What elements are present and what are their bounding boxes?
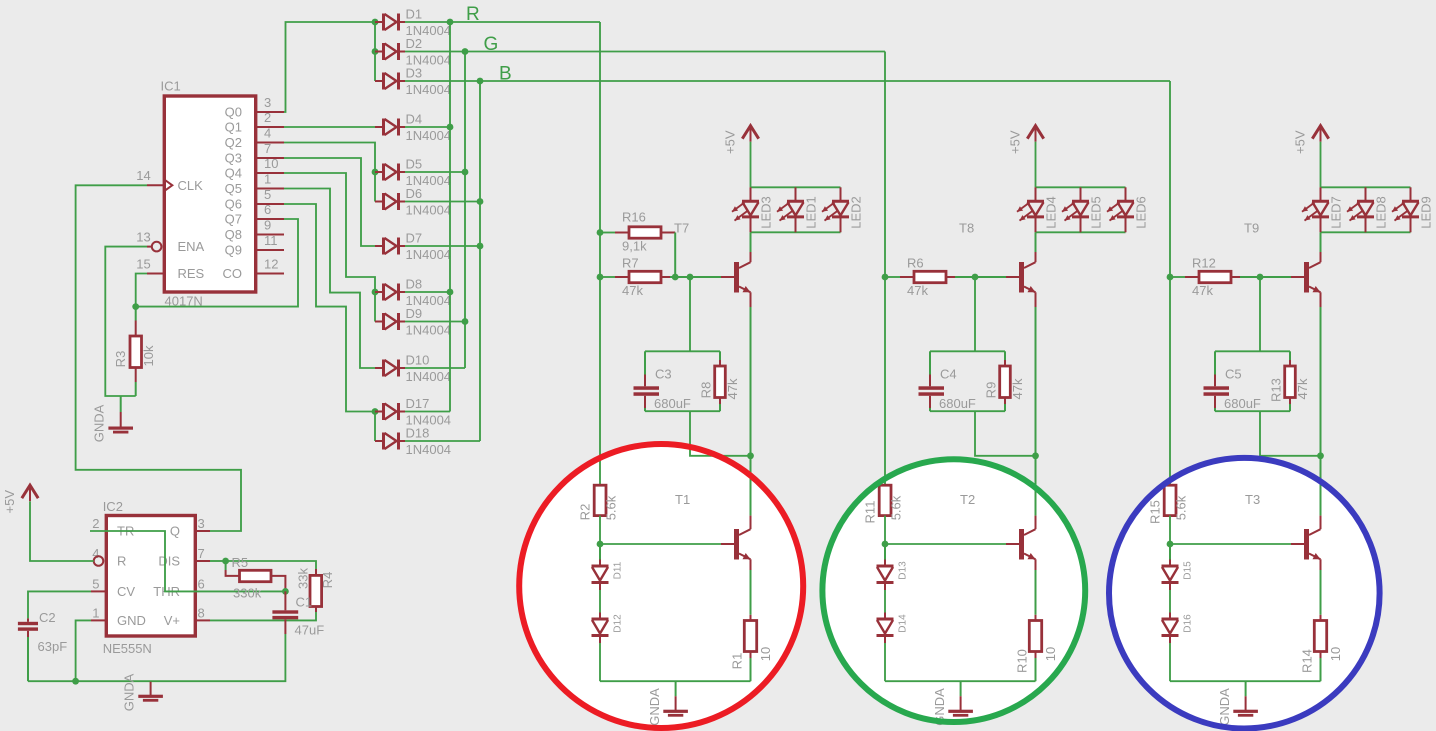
junction dot R7 tap — [597, 274, 604, 281]
wire R16 left — [600, 232, 629, 234]
resistor R15 body — [1164, 485, 1176, 515]
junction dot ground rail — [72, 678, 79, 685]
wire R2 bottom to base node — [599, 516, 601, 544]
R8 reference label — [698, 382, 713, 399]
wire Q6 pin5 to D17-D18 anodes — [284, 204, 375, 441]
svg-text:IC2: IC2 — [103, 499, 123, 514]
net label B — [499, 64, 512, 85]
GNDA label under IC2 — [122, 673, 137, 711]
IC1 pin name Q7 — [225, 212, 242, 227]
wire LED top rail — [1321, 186, 1411, 188]
svg-text:LED4: LED4 — [1043, 196, 1058, 229]
svg-text:10: 10 — [758, 647, 773, 661]
svg-text:R13: R13 — [1268, 378, 1283, 402]
svg-text:D8: D8 — [406, 277, 423, 292]
svg-text:6: 6 — [264, 202, 271, 217]
svg-text:R7: R7 — [622, 256, 639, 271]
capacitor C3 680uF — [634, 351, 660, 411]
wire net G vertical to stage — [884, 52, 886, 486]
IC1 pin 11 (Q9) stub — [256, 249, 284, 251]
IC1 pin name CO — [223, 266, 243, 281]
IC1 pin 1 (Q5) stub — [256, 188, 284, 190]
IC1 pin 12 (CO) stub — [256, 273, 284, 275]
IC2 reference label — [103, 499, 123, 514]
IC2 pin 3 Q stub — [195, 530, 210, 532]
svg-text:1: 1 — [264, 172, 271, 187]
wire +5V to R pin4 — [30, 501, 94, 561]
svg-text:T3: T3 — [1245, 492, 1260, 507]
supply +5V stage B — [1292, 126, 1328, 154]
IC1 pin 15 (RES) stub — [147, 273, 164, 275]
IC IC1 4017N body — [164, 96, 255, 292]
svg-text:CLK: CLK — [178, 178, 204, 193]
svg-text:3: 3 — [198, 516, 205, 531]
wire base node to C3 box — [689, 277, 691, 351]
svg-text:13: 13 — [136, 230, 150, 245]
resistor R8 body — [715, 351, 726, 411]
svg-text:C3: C3 — [655, 367, 672, 382]
wire LED top rail — [1036, 186, 1126, 188]
junction dot R bus D8 — [447, 289, 454, 296]
svg-text:R3: R3 — [113, 351, 128, 368]
wire Q4 pin10 to D8-D9 anodes — [284, 173, 375, 322]
R9 reference label — [983, 382, 998, 399]
net label R — [466, 4, 480, 25]
wire C5 box exit — [1260, 411, 1321, 456]
svg-text:Q8: Q8 — [225, 227, 242, 242]
R8 value label 47k — [725, 378, 740, 399]
wire net B horizontal rail — [480, 80, 1170, 82]
ground GNDA stage B — [1233, 681, 1258, 717]
wire T7 emitter down — [750, 292, 752, 456]
wire stage ground rail — [885, 680, 1036, 682]
IC1 pin name Q0 — [225, 105, 242, 120]
svg-text:C2: C2 — [39, 610, 56, 625]
wire D13 to D14 — [884, 590, 886, 613]
svg-text:47k: 47k — [1010, 378, 1025, 399]
wire C3 box bottom — [645, 410, 720, 412]
svg-text:D1: D1 — [406, 7, 423, 22]
R2 reference label — [578, 504, 593, 521]
svg-text:R4: R4 — [320, 572, 335, 589]
svg-text:Q1: Q1 — [225, 120, 242, 135]
resistor R5 body — [240, 570, 272, 581]
IC1 pin name ENA — [178, 239, 205, 254]
wire T9 emitter down — [1320, 292, 1322, 456]
net label G — [484, 34, 499, 55]
diode D14 — [877, 613, 909, 644]
svg-text:D5: D5 — [406, 157, 423, 172]
junction dot B bus D6 — [477, 198, 484, 205]
R5 reference label — [232, 555, 249, 570]
IC2 pin number 2 — [92, 516, 99, 531]
svg-text:47k: 47k — [725, 378, 740, 399]
IC1 pin name Q5 — [225, 181, 242, 196]
C4 value label 680uF — [939, 396, 976, 411]
resistor R13 body — [1285, 351, 1296, 411]
svg-text:Q9: Q9 — [225, 243, 242, 258]
svg-text:C4: C4 — [940, 367, 957, 382]
svg-text:R5: R5 — [232, 555, 249, 570]
svg-text:D12: D12 — [613, 614, 624, 633]
svg-text:R8: R8 — [698, 382, 713, 399]
svg-text:GND: GND — [117, 613, 146, 628]
wire base node to T2 — [885, 543, 1019, 545]
transistor T7 NPN — [734, 262, 751, 293]
IC IC2 NE555N body — [106, 516, 195, 637]
wire R7 right to base — [661, 276, 734, 278]
R15 reference label — [1148, 500, 1163, 524]
C2 reference label — [39, 610, 56, 625]
capacitor C4 680uF — [919, 351, 945, 411]
svg-text:R6: R6 — [907, 256, 924, 271]
junction dot base node — [1167, 541, 1174, 548]
svg-text:5: 5 — [264, 187, 271, 202]
IC1 pin name Q6 — [225, 197, 242, 212]
IC1 pin name Q2 — [225, 135, 242, 150]
wire Q2 pin4 to D5-D6 anodes — [284, 143, 375, 202]
svg-text:LED3: LED3 — [758, 196, 773, 229]
svg-text:R1: R1 — [729, 653, 744, 670]
svg-text:3: 3 — [264, 95, 271, 110]
wire DIS to node — [210, 560, 226, 562]
IC2 pin name GND — [117, 613, 146, 628]
R16 value label 9,1k — [622, 239, 647, 254]
svg-text:LED6: LED6 — [1133, 196, 1148, 229]
wire R1 bottom — [750, 652, 752, 682]
wire RES pin15 to R3 node — [136, 274, 147, 307]
junction dot D8 anode — [372, 289, 379, 296]
svg-text:D11: D11 — [613, 561, 624, 579]
transistor T1 NPN — [734, 529, 751, 560]
svg-text:1N4004: 1N4004 — [406, 323, 452, 338]
IC2 pin number 1 — [92, 605, 99, 620]
junction dot D1 anode — [372, 19, 379, 26]
wire anode bus D1-D3 — [374, 22, 376, 81]
svg-text:T7: T7 — [674, 221, 689, 236]
svg-text:1N4004: 1N4004 — [406, 247, 452, 262]
IC1 pin 7 (Q3) stub — [256, 157, 284, 159]
wire D3 cathode to B bus — [405, 80, 480, 82]
resistor R1 body — [744, 621, 756, 652]
R6 reference label — [907, 256, 924, 271]
IC1 pin number 3 — [264, 95, 271, 110]
R10 value label 10 — [1043, 647, 1058, 661]
wire T7 collector — [750, 232, 752, 262]
svg-text:5.6k: 5.6k — [604, 495, 619, 520]
IC2 pin name CV — [117, 584, 135, 599]
diode D8 1N4004 — [375, 277, 451, 309]
svg-text:47k: 47k — [907, 283, 928, 298]
R11 value label 5.6k — [889, 495, 904, 520]
R9 value label 47k — [1010, 378, 1025, 399]
wire net R horizontal rail — [450, 21, 600, 23]
IC1 pin 6 (Q7) stub — [256, 218, 284, 220]
svg-text:Q3: Q3 — [225, 151, 242, 166]
junction dot D2 anode — [372, 48, 379, 55]
IC2 pin 7 DIS stub — [195, 560, 210, 562]
wire D11 to D12 — [599, 590, 601, 613]
wire R bus vertical — [449, 22, 451, 412]
wire C4 box top — [930, 350, 1005, 352]
wire D5 cathode to G bus — [405, 171, 465, 173]
IC1 pin number 1 — [264, 172, 271, 187]
svg-text:D2: D2 — [406, 36, 423, 51]
wire R11 bottom to base node — [884, 516, 886, 544]
svg-text:680uF: 680uF — [939, 396, 976, 411]
wire base node to C5 box — [1259, 277, 1261, 351]
junction dot collector node — [1317, 452, 1324, 459]
R3 reference label — [113, 351, 128, 368]
svg-text:R9: R9 — [983, 382, 998, 399]
svg-text:V+: V+ — [164, 613, 180, 628]
R7 value label 47k — [622, 283, 643, 298]
diode D16 — [1162, 613, 1194, 644]
svg-text:D16: D16 — [1183, 614, 1194, 633]
svg-text:R10: R10 — [1014, 649, 1029, 673]
svg-text:D18: D18 — [406, 426, 430, 441]
IC1 pin number 6 — [264, 202, 271, 217]
svg-text:R12: R12 — [1192, 256, 1216, 271]
C3 value label 680uF — [654, 396, 691, 411]
wire LED top rail — [751, 186, 841, 188]
IC2 pin number 4 — [92, 546, 99, 561]
wire ENA pin13 to ground — [105, 247, 147, 396]
wire D16 to ground rail — [1169, 643, 1171, 681]
svg-text:ENA: ENA — [178, 239, 205, 254]
diode D5 1N4004 — [375, 157, 451, 189]
IC1 pin number 5 — [264, 187, 271, 202]
svg-text:1N4004: 1N4004 — [406, 442, 452, 457]
diode D10 1N4004 — [375, 353, 451, 385]
wire C5 box bottom — [1215, 410, 1290, 412]
svg-text:LED1: LED1 — [803, 196, 818, 229]
IC1 pin 9 (Q8) stub — [256, 234, 284, 236]
IC1 pin 13 (ENA) stub and bubble — [147, 242, 161, 252]
ground GNDA stage G — [948, 681, 973, 717]
wire TR pin2 to THR pin6 — [90, 531, 285, 591]
wire R7 left — [600, 276, 629, 278]
wire R5 right to THR node — [271, 576, 285, 592]
wire R14 bottom — [1320, 652, 1322, 682]
diode D6 1N4004 — [375, 186, 451, 218]
svg-text:1N4004: 1N4004 — [406, 128, 452, 143]
wire D1 cathode to R bus — [405, 21, 450, 23]
IC2 pin 4 bubble — [94, 556, 104, 566]
IC1 pin 5 (Q6) stub — [256, 203, 284, 205]
IC1 pin 2 (Q1) stub — [256, 126, 284, 128]
svg-text:47k: 47k — [1295, 378, 1310, 399]
IC1 pin number 13 — [136, 230, 150, 245]
LED LED7 — [1302, 187, 1343, 232]
LED LED4 — [1017, 187, 1058, 232]
svg-text:C5: C5 — [1225, 367, 1242, 382]
IC1 pin number 14 — [136, 168, 150, 183]
svg-text:4: 4 — [264, 126, 271, 141]
IC2 pin name DIS — [158, 554, 180, 569]
IC1 pin 10 (Q4) stub — [256, 172, 284, 174]
R1 reference label — [729, 653, 744, 670]
svg-text:7: 7 — [198, 546, 205, 561]
junction dot D17 anode — [372, 408, 379, 415]
R6 value label 47k — [907, 283, 928, 298]
junction dot G bus D2 — [462, 48, 469, 55]
junction dot B bus D3 — [477, 78, 484, 85]
svg-text:680uF: 680uF — [1224, 396, 1261, 411]
svg-text:10: 10 — [1328, 647, 1343, 661]
svg-text:12: 12 — [264, 257, 278, 272]
supply +5V stage R — [722, 126, 758, 154]
wire T9 collector — [1320, 232, 1322, 262]
wire D7 cathode to B bus — [405, 245, 480, 247]
diode D11 — [592, 560, 624, 591]
resistor R16 body — [629, 227, 661, 238]
C2 value label 63pF — [38, 639, 68, 654]
supply +5V for IC2 — [2, 485, 38, 513]
wire base node to C4 box — [974, 277, 976, 351]
svg-text:C1: C1 — [296, 595, 313, 610]
wire T3 emitter to R14 — [1320, 559, 1322, 620]
resistor R11 body — [879, 485, 891, 515]
T2 label — [960, 492, 975, 507]
wire C5 box top — [1215, 350, 1290, 352]
junction dot R16 join — [672, 274, 679, 281]
R13 value label 47k — [1295, 378, 1310, 399]
R12 reference label — [1192, 256, 1216, 271]
junction dot B bus D7 — [477, 243, 484, 250]
T3 label — [1245, 492, 1260, 507]
T9 label — [1244, 221, 1259, 236]
LED LED5 — [1062, 187, 1103, 232]
diode D1 1N4004 — [375, 7, 451, 39]
svg-text:7: 7 — [264, 141, 271, 156]
IC1 pin name Q8 — [225, 227, 242, 242]
diode D7 1N4004 — [375, 231, 451, 263]
resistor R6 body — [914, 271, 946, 282]
diode D12 — [592, 613, 624, 644]
IC1 pin number 9 — [264, 218, 271, 233]
resistor R3 body — [130, 336, 142, 368]
supply +5V stage G — [1007, 126, 1043, 154]
wire base node down to D11 — [599, 544, 601, 560]
wire C3 box top — [645, 350, 720, 352]
IC1 pin 4 (Q2) stub — [256, 142, 284, 144]
junction dot DIS node — [222, 558, 229, 565]
svg-text:Q2: Q2 — [225, 135, 242, 150]
ground GNDA under IC2 — [138, 681, 163, 702]
junction dot D5 anode — [372, 169, 379, 176]
svg-text:DIS: DIS — [158, 554, 180, 569]
diode D9 1N4004 — [375, 306, 451, 338]
svg-text:1N4004: 1N4004 — [406, 82, 452, 97]
svg-text:680uF: 680uF — [654, 396, 691, 411]
svg-text:Q6: Q6 — [225, 197, 242, 212]
svg-text:+5V: +5V — [1007, 130, 1022, 154]
IC1 pin number 2 — [264, 110, 271, 125]
diode D18 1N4004 — [375, 426, 451, 458]
capacitor C5 680uF — [1204, 351, 1230, 411]
wire D14 to ground rail — [884, 643, 886, 681]
svg-text:47uF: 47uF — [295, 623, 325, 638]
IC2 pin 1 GND stub — [91, 619, 106, 621]
svg-text:+5V: +5V — [1292, 130, 1307, 154]
IC1 pin number 11 — [264, 233, 278, 248]
wire Q3 pin7 to D7 — [284, 158, 375, 246]
R4 value label 33k — [296, 568, 311, 589]
T7 label — [674, 221, 689, 236]
IC2 pin name R — [117, 554, 126, 569]
wire DIS node down to R5 — [226, 561, 240, 576]
diode D2 1N4004 — [375, 36, 451, 68]
svg-text:R11: R11 — [863, 501, 878, 524]
IC2 pin number 8 — [198, 605, 205, 620]
wire Q5 pin1 to D10 — [284, 189, 375, 369]
svg-text:T9: T9 — [1244, 221, 1259, 236]
svg-text:GNDA: GNDA — [647, 688, 662, 726]
wire C4 box bottom — [930, 410, 1005, 412]
wire CV to C2 — [28, 591, 91, 618]
wire T8 collector — [1035, 232, 1037, 262]
resistor R10 body — [1029, 621, 1041, 652]
R10 reference label — [1014, 649, 1029, 673]
GNDA label stage R — [647, 688, 662, 726]
svg-text:CO: CO — [223, 266, 243, 281]
svg-text:1N4004: 1N4004 — [406, 369, 452, 384]
wire R16 right to base node — [661, 233, 675, 278]
GNDA label stage G — [932, 688, 947, 726]
svg-text:10: 10 — [264, 156, 278, 171]
wire D9 cathode to G bus — [405, 321, 465, 323]
IC1 pin name CLK — [178, 178, 204, 193]
svg-text:33k: 33k — [296, 568, 311, 589]
wire D10 cathode to G bus — [405, 367, 465, 369]
diode D15 — [1162, 560, 1194, 591]
diode D4 1N4004 — [375, 112, 451, 144]
wire D17 cathode to R bus — [405, 411, 450, 413]
svg-text:R16: R16 — [622, 210, 646, 225]
svg-text:9,1k: 9,1k — [622, 239, 647, 254]
junction dot cap branch C4 — [972, 274, 979, 281]
IC1 pin 3 (Q0) stub — [256, 111, 284, 113]
wire Q1 pin2 to D4 — [284, 126, 375, 128]
C3 reference label — [655, 367, 672, 382]
LED LED2 — [822, 187, 863, 232]
wire collector node to T3 — [1320, 456, 1322, 529]
wire D6 cathode to B bus — [405, 201, 480, 203]
transistor T9 NPN — [1304, 262, 1321, 293]
junction dot R3 node — [132, 303, 139, 310]
junction dot THR node — [282, 588, 289, 595]
IC1 reference label — [161, 79, 181, 94]
svg-text:10k: 10k — [141, 345, 156, 366]
svg-text:LED7: LED7 — [1328, 196, 1343, 229]
C1 reference label — [296, 595, 313, 610]
wire R4 bottom to V+ pin8 — [210, 607, 316, 621]
IC1 pin name Q9 — [225, 243, 242, 258]
wire T2 emitter to R10 — [1035, 559, 1037, 620]
svg-text:Q7: Q7 — [225, 212, 242, 227]
C1 value label 47uF — [295, 623, 325, 638]
svg-text:T2: T2 — [960, 492, 975, 507]
svg-text:D10: D10 — [406, 353, 430, 368]
LED LED3 — [732, 187, 773, 232]
ground GNDA under R3 — [108, 396, 133, 434]
wire LED bottom rail — [1321, 231, 1411, 233]
svg-text:2: 2 — [92, 516, 99, 531]
transistor T2 NPN — [1019, 529, 1036, 560]
R13 reference label — [1268, 378, 1283, 402]
junction dot R bus D4 — [447, 124, 454, 131]
